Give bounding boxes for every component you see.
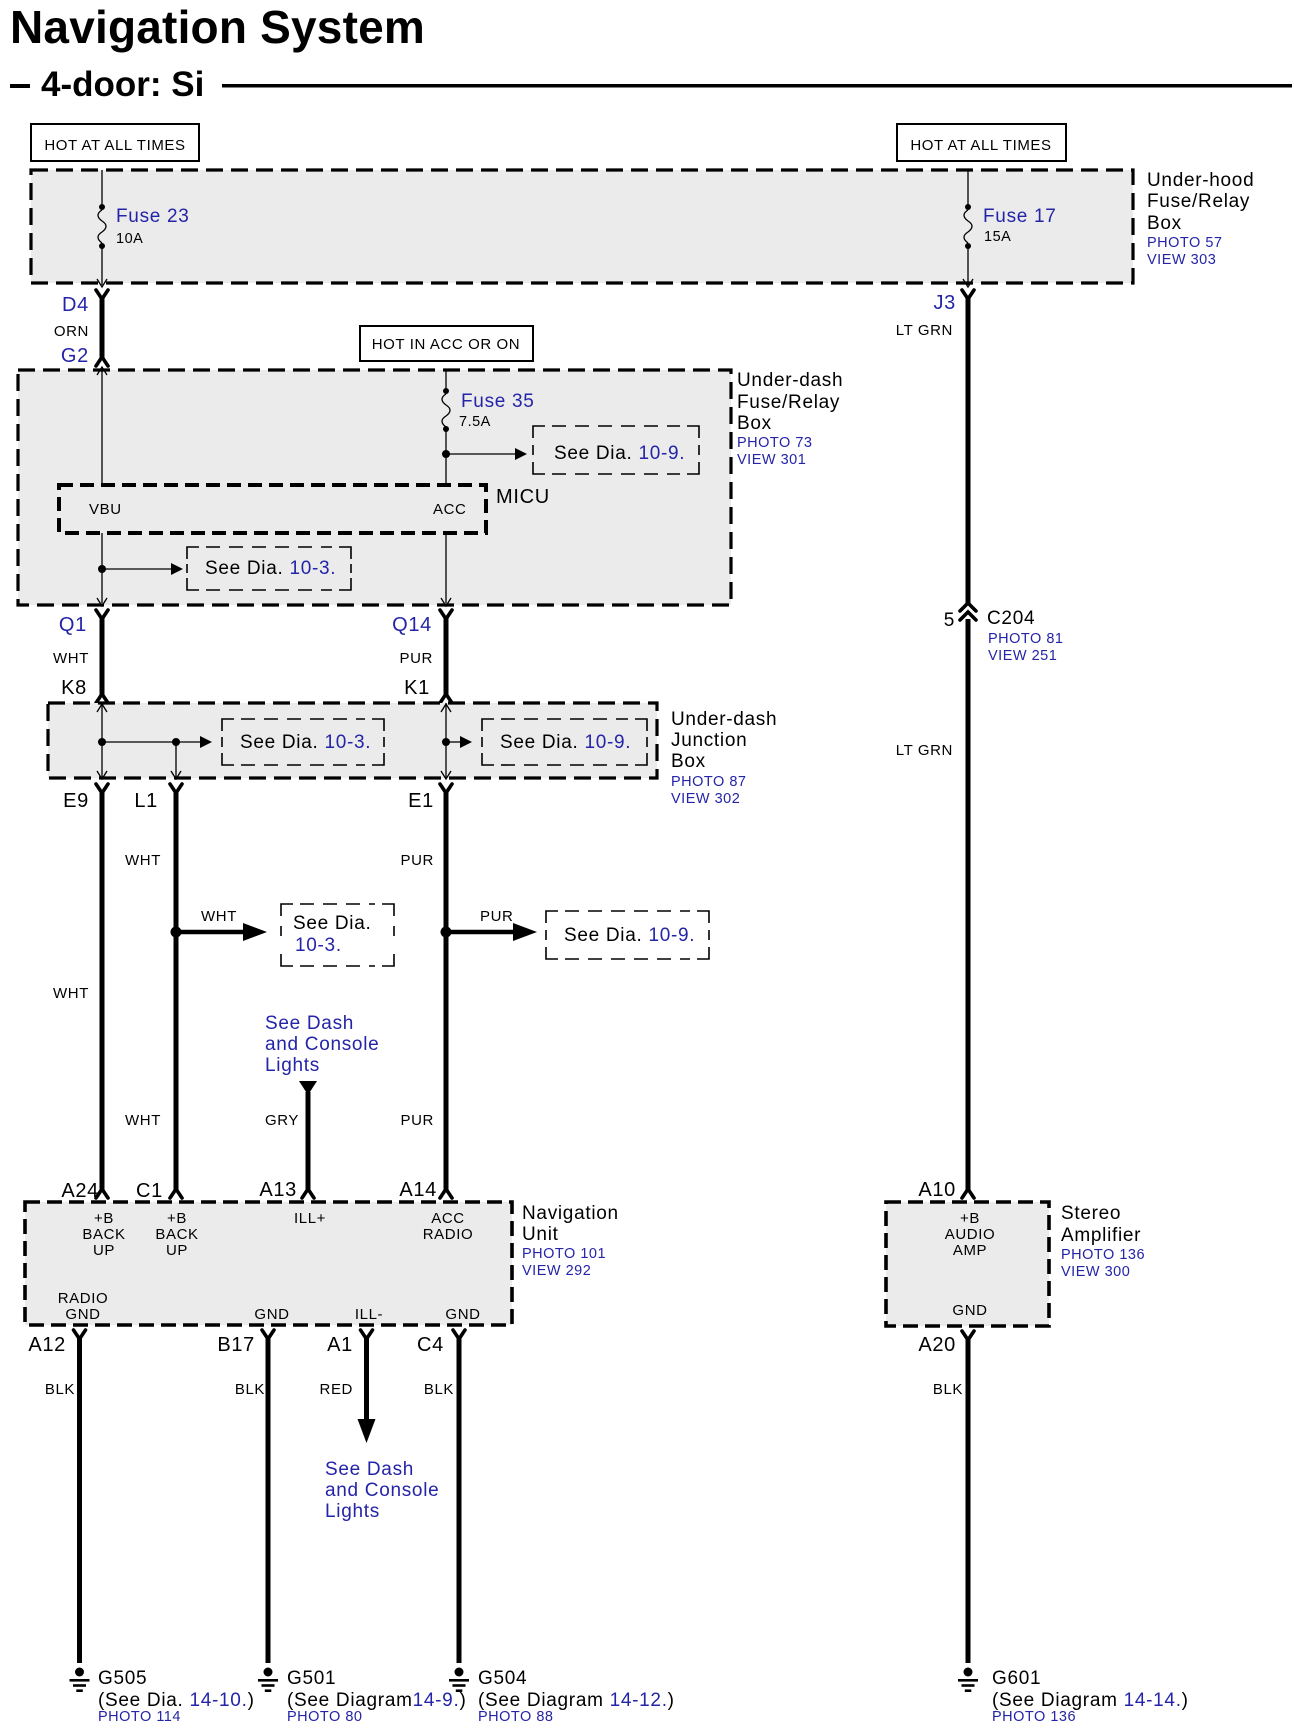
svg-text:GND: GND: [65, 1306, 100, 1323]
wire: G2 into box, up arrow, down to MICU VBU: [97, 367, 107, 485]
svg-text:K8: K8: [61, 677, 87, 699]
wire arrow to See Dia. 10-9. (fuse 35): [446, 448, 527, 460]
pin labels navigation unit bottom: [58, 1290, 481, 1323]
svg-text:ACC: ACC: [431, 1210, 464, 1227]
svg-text:PHOTO 87: PHOTO 87: [671, 774, 746, 790]
wire: fuse 23 to D4 with arrow: [97, 246, 107, 287]
svg-text:4-door: Si: 4-door: Si: [41, 65, 204, 104]
svg-text:LT GRN: LT GRN: [896, 742, 953, 759]
svg-text:Stereo: Stereo: [1061, 1203, 1121, 1224]
svg-text:ACC: ACC: [433, 501, 466, 518]
svg-text:VIEW 300: VIEW 300: [1061, 1264, 1130, 1280]
svg-text:WHT: WHT: [53, 650, 89, 667]
svg-text:See Dash: See Dash: [265, 1013, 354, 1034]
svg-text:PHOTO 80: PHOTO 80: [287, 1709, 362, 1725]
svg-text:and Console: and Console: [265, 1034, 379, 1055]
navigation unit box: [25, 1202, 512, 1325]
svg-text:Under-dash: Under-dash: [671, 709, 777, 730]
svg-text:K1: K1: [404, 677, 430, 699]
connector E9: [63, 784, 108, 812]
connector A14: [399, 1179, 452, 1201]
wire E1 to A14 (PUR): [401, 791, 446, 1191]
connector J3: [933, 290, 974, 314]
svg-text:+B: +B: [960, 1210, 980, 1227]
svg-text:J3: J3: [933, 292, 956, 314]
svg-text:RADIO: RADIO: [58, 1290, 109, 1307]
connector A13: [259, 1179, 314, 1201]
wire: junction branch to L1 and See Dia. 10-3.: [102, 736, 212, 779]
wire: J3 down to C204 (LT GRN): [966, 297, 971, 603]
svg-text:Fuse/Relay: Fuse/Relay: [1147, 191, 1250, 212]
svg-text:GND: GND: [254, 1306, 289, 1323]
svg-text:Q1: Q1: [59, 614, 87, 636]
wire: VBU down to Q1 with junction: [97, 533, 107, 606]
svg-text:See Dia.: See Dia.: [293, 913, 371, 934]
svg-text:GND: GND: [445, 1306, 480, 1323]
svg-text:PHOTO 114: PHOTO 114: [98, 1709, 181, 1725]
svg-text:See Dia. 10-9.: See Dia. 10-9.: [564, 925, 695, 946]
svg-text:A10: A10: [918, 1179, 956, 1201]
svg-text:VIEW 301: VIEW 301: [737, 452, 806, 468]
wire arrow PUR to See Dia. 10-9.: [446, 908, 537, 941]
svg-text:E9: E9: [63, 790, 89, 812]
junction box caption: [671, 709, 777, 807]
ground G505: [70, 1668, 255, 1726]
wire: feed into fuse 23: [101, 170, 103, 207]
note: See Dash and Console Lights (upper): [265, 1013, 379, 1076]
svg-text:Box: Box: [737, 413, 772, 434]
svg-text:Navigation: Navigation: [522, 1203, 619, 1224]
svg-text:10A: 10A: [116, 231, 143, 247]
svg-text:PHOTO 136: PHOTO 136: [992, 1709, 1076, 1725]
svg-text:Under-dash: Under-dash: [737, 370, 843, 391]
wire E9 to A24 (WHT): [53, 791, 102, 1191]
fuse F17: [964, 204, 1057, 249]
See Dia. 10-3. box (under-dash): [187, 547, 351, 590]
svg-text:PUR: PUR: [401, 1112, 434, 1129]
node: WHT branch junction: [171, 927, 182, 938]
svg-text:RED: RED: [320, 1381, 353, 1398]
svg-text:BACK: BACK: [155, 1226, 198, 1243]
svg-text:PUR: PUR: [400, 650, 433, 667]
note: See Dash and Console Lights (lower): [325, 1459, 439, 1522]
svg-text:AMP: AMP: [953, 1242, 987, 1259]
subtitle 4-door: Si: [10, 65, 1292, 104]
svg-text:AUDIO: AUDIO: [945, 1226, 996, 1243]
wire from dash/console lights to A13 (GRY): [265, 1081, 317, 1191]
svg-text:A24: A24: [61, 1180, 99, 1202]
svg-text:See Dia. 10-3.: See Dia. 10-3.: [205, 558, 336, 579]
wire: fuse 35 down to MICU ACC: [445, 429, 447, 485]
See Dia. 10-9. box (junction): [482, 719, 647, 765]
wire L1 to C1 (WHT): [125, 791, 176, 1191]
svg-text:BLK: BLK: [235, 1381, 265, 1398]
svg-text:BLK: BLK: [933, 1381, 963, 1398]
connector A12: [28, 1330, 85, 1356]
svg-text:Box: Box: [1147, 213, 1182, 234]
svg-text:VIEW 303: VIEW 303: [1147, 252, 1216, 268]
See Dia. 10-9. box (under-dash): [533, 426, 699, 474]
svg-text:BLK: BLK: [424, 1381, 454, 1398]
svg-text:Under-hood: Under-hood: [1147, 170, 1254, 191]
under-dash box caption: [737, 370, 843, 468]
connector L1: [134, 784, 182, 812]
fuse F23: [98, 204, 190, 249]
ground G504: [449, 1668, 675, 1726]
svg-text:and Console: and Console: [325, 1480, 439, 1501]
svg-text:L1: L1: [134, 790, 158, 812]
svg-text:(See Diagram14-9.): (See Diagram14-9.): [287, 1690, 466, 1711]
wire: fuse 17 to J3 with arrow: [963, 246, 973, 287]
connector Q1/K8: [53, 610, 108, 703]
wire A20 to G601 (BLK): [933, 1338, 968, 1663]
svg-text:See Dash: See Dash: [325, 1459, 414, 1480]
svg-text:Navigation System: Navigation System: [10, 1, 425, 53]
label HOT AT ALL TIMES (right): [897, 124, 1066, 161]
stereo amplifier caption: [1061, 1203, 1145, 1280]
svg-text:Lights: Lights: [325, 1501, 380, 1522]
wire B17 to G501 (BLK): [235, 1337, 268, 1663]
wire arrow WHT to See Dia. 10-3.: [176, 908, 267, 941]
svg-text:10-3.: 10-3.: [295, 935, 342, 956]
svg-text:HOT AT ALL TIMES: HOT AT ALL TIMES: [910, 137, 1051, 154]
svg-text:PUR: PUR: [480, 908, 513, 925]
svg-text:WHT: WHT: [201, 908, 237, 925]
svg-text:Lights: Lights: [265, 1055, 320, 1076]
svg-text:Unit: Unit: [522, 1224, 559, 1245]
svg-text:A14: A14: [399, 1179, 437, 1201]
svg-text:C4: C4: [417, 1334, 444, 1356]
svg-text:C1: C1: [136, 1180, 163, 1202]
svg-text:LT GRN: LT GRN: [896, 322, 953, 339]
svg-text:UP: UP: [93, 1242, 115, 1259]
svg-text:Amplifier: Amplifier: [1061, 1225, 1141, 1246]
svg-text:PHOTO 57: PHOTO 57: [1147, 235, 1222, 251]
wire A1 (RED) with arrow to dash/console lights: [320, 1337, 376, 1443]
svg-text:A1: A1: [327, 1334, 353, 1356]
svg-text:BLK: BLK: [45, 1381, 75, 1398]
connector A1: [327, 1330, 372, 1356]
svg-text:E1: E1: [408, 790, 434, 812]
svg-text:PHOTO 73: PHOTO 73: [737, 435, 812, 451]
svg-text:G2: G2: [61, 345, 89, 367]
svg-text:B17: B17: [217, 1334, 255, 1356]
wire: K1 through junction box: [441, 703, 472, 779]
wire: ACC down to Q14: [441, 533, 451, 606]
connector Q14/K1: [392, 610, 452, 703]
MICU module box: [59, 485, 550, 533]
wire: box top down to fuse 35: [445, 370, 447, 391]
svg-text:7.5A: 7.5A: [459, 414, 491, 430]
pin labels stereo amplifier: [945, 1210, 996, 1319]
svg-text:WHT: WHT: [125, 852, 161, 869]
node: PUR branch junction: [441, 927, 452, 938]
svg-text:VBU: VBU: [89, 501, 122, 518]
svg-text:See Dia. 10-9.: See Dia. 10-9.: [554, 443, 685, 464]
connector A24: [61, 1180, 108, 1202]
svg-text:PHOTO 136: PHOTO 136: [1061, 1247, 1145, 1263]
under-hood box caption: [1147, 170, 1254, 268]
svg-text:D4: D4: [62, 294, 89, 316]
wire: C204 down to A10 (LT GRN): [966, 619, 971, 1190]
label HOT IN ACC OR ON: [360, 326, 533, 361]
svg-text:G601: G601: [992, 1668, 1041, 1689]
svg-text:VIEW 292: VIEW 292: [522, 1263, 591, 1279]
svg-text:UP: UP: [166, 1242, 188, 1259]
svg-text:(See Diagram 14-14.): (See Diagram 14-14.): [992, 1690, 1189, 1711]
connector B17: [217, 1330, 274, 1356]
connector C4: [417, 1330, 465, 1356]
See Dia. 10-3. box (junction): [222, 719, 384, 765]
svg-text:PHOTO 88: PHOTO 88: [478, 1709, 553, 1725]
See Dia. 10-3. box (two-line): [281, 904, 394, 966]
svg-text:5: 5: [944, 610, 955, 631]
svg-text:ORN: ORN: [54, 323, 89, 340]
wire: feed into fuse 17: [967, 170, 969, 207]
svg-text:(See Diagram 14-12.): (See Diagram 14-12.): [478, 1690, 675, 1711]
connector E1: [408, 784, 452, 812]
svg-text:VIEW 302: VIEW 302: [671, 791, 740, 807]
svg-text:PHOTO 101: PHOTO 101: [522, 1246, 606, 1262]
svg-text:Fuse 17: Fuse 17: [983, 206, 1057, 227]
wire C4 to G504 (BLK): [424, 1337, 459, 1663]
svg-text:WHT: WHT: [53, 985, 89, 1002]
connector D4/G2: [54, 290, 108, 367]
svg-text:HOT IN ACC OR ON: HOT IN ACC OR ON: [372, 336, 521, 353]
svg-text:Q14: Q14: [392, 614, 432, 636]
svg-text:C204: C204: [987, 608, 1035, 629]
under-dash fuse/relay box: [18, 370, 731, 605]
svg-text:Box: Box: [671, 751, 706, 772]
svg-text:RADIO: RADIO: [423, 1226, 474, 1243]
connector A20: [918, 1331, 974, 1356]
svg-text:See Dia. 10-9.: See Dia. 10-9.: [500, 732, 631, 753]
connector A10: [918, 1179, 974, 1201]
svg-text:HOT AT ALL TIMES: HOT AT ALL TIMES: [44, 137, 185, 154]
svg-text:15A: 15A: [984, 229, 1011, 245]
svg-text:A20: A20: [918, 1334, 956, 1356]
svg-text:Junction: Junction: [671, 730, 747, 751]
svg-text:GRY: GRY: [265, 1112, 299, 1129]
wire: K8 through junction box: [97, 703, 107, 779]
svg-text:ILL+: ILL+: [294, 1210, 326, 1227]
svg-text:BACK: BACK: [82, 1226, 125, 1243]
in-line connector C204 pin 5: [944, 603, 1064, 664]
under-hood fuse/relay box: [31, 170, 1133, 283]
svg-text:G501: G501: [287, 1668, 336, 1689]
pin labels navigation unit top: [82, 1210, 473, 1259]
See Dia. 10-9. box (below junction): [546, 911, 709, 959]
ground G601: [958, 1668, 1189, 1726]
svg-text:+B: +B: [167, 1210, 187, 1227]
label HOT AT ALL TIMES (left): [31, 124, 199, 161]
svg-text:Fuse/Relay: Fuse/Relay: [737, 392, 840, 413]
under-dash junction box: [48, 703, 657, 778]
svg-text:PUR: PUR: [401, 852, 434, 869]
fuse F35: [442, 388, 535, 432]
svg-text:+B: +B: [94, 1210, 114, 1227]
svg-text:VIEW 251: VIEW 251: [988, 648, 1057, 664]
svg-text:WHT: WHT: [125, 1112, 161, 1129]
svg-text:G504: G504: [478, 1668, 527, 1689]
svg-text:PHOTO 81: PHOTO 81: [988, 631, 1063, 647]
svg-text:Fuse 35: Fuse 35: [461, 391, 535, 412]
svg-text:MICU: MICU: [496, 486, 550, 508]
wire arrow to See Dia. 10-3. (under-dash): [102, 563, 183, 575]
svg-text:G505: G505: [98, 1668, 147, 1689]
ground G501: [258, 1668, 466, 1726]
svg-text:A13: A13: [259, 1179, 297, 1201]
svg-text:ILL-: ILL-: [355, 1306, 383, 1323]
svg-text:Fuse 23: Fuse 23: [116, 206, 190, 227]
svg-text:(See Dia. 14-10.): (See Dia. 14-10.): [98, 1690, 255, 1711]
svg-text:A12: A12: [28, 1334, 66, 1356]
wire A12 to G505 (BLK): [45, 1337, 80, 1663]
connector C1: [136, 1180, 182, 1202]
navigation unit caption: [522, 1203, 619, 1279]
svg-text:See Dia. 10-3.: See Dia. 10-3.: [240, 732, 371, 753]
node: fuse 35 branch junction: [442, 450, 450, 458]
svg-text:GND: GND: [952, 1302, 987, 1319]
stereo amplifier box: [886, 1202, 1049, 1326]
